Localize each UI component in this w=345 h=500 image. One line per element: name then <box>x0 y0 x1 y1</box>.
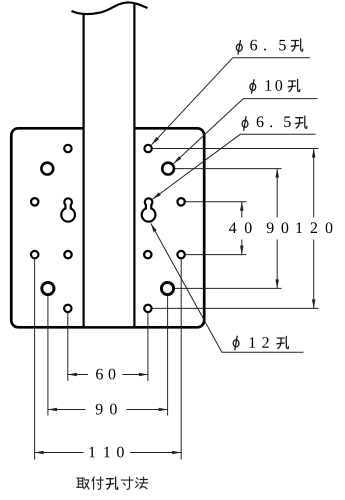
dimension 110 text <box>89 447 123 458</box>
caption kanji 寸 <box>121 477 133 489</box>
extension line x=147.9 (60 dim right) <box>147 313 149 381</box>
pole break wave <box>72 2 148 14</box>
label φ6.5孔 (top) phi symbol <box>236 40 242 55</box>
hole φ6.5 row D far-left <box>31 251 38 258</box>
label φ10孔 phi symbol <box>250 79 256 94</box>
caption kanji 法 <box>136 477 148 489</box>
hole φ6.5 mid-right outer (row C right) <box>177 198 184 205</box>
extension line x=34.6 (110 dim left) <box>34 259 36 459</box>
keyhole slot right (φ6.5 top / φ12 bottom) <box>142 198 156 221</box>
caption kanji 取 <box>77 478 89 489</box>
keyhole slot left (φ6.5 top / φ12 bottom) <box>61 198 75 221</box>
label φ12孔 leader <box>151 223 304 352</box>
extension line x=181.2 (110 dim right) <box>180 259 182 459</box>
label φ6.5孔 (top) digits <box>250 40 285 51</box>
extension line x=167.6 (90 dim right) <box>167 296 169 416</box>
pole body (occludes plate top edge) <box>84 12 135 326</box>
label φ6.5孔 (middle) digits <box>257 116 291 127</box>
label φ6.5孔 (middle) phi symbol <box>242 116 248 131</box>
caption kanji 付 <box>92 477 103 489</box>
hole φ6.5 row D mid-right <box>144 251 151 258</box>
extension line y=201.8 (40 dim top) <box>185 201 247 203</box>
caption kanji 孔 <box>106 477 118 489</box>
hole φ6.5 bottom-left inner (row F left) <box>64 305 71 312</box>
hole φ6.5 mid-left outer (row C left) <box>31 198 38 205</box>
hole φ6.5 top-left inner (row A left) <box>64 145 71 152</box>
extension line y=168.6 (90 dim top) <box>175 168 282 170</box>
hole φ6.5 row D mid-left <box>64 251 71 258</box>
extension line y=308.4 (120 dim bottom) <box>152 307 319 309</box>
extension line y=148.5 (120 dim top) <box>152 148 319 150</box>
hole φ10 upper-left (row B left) <box>41 163 53 175</box>
label φ12孔 digits <box>250 337 269 348</box>
dimension 120 text <box>296 222 332 233</box>
hole φ10 lower-right (row E right) <box>161 282 173 294</box>
hole φ6.5 row D far-right <box>177 251 184 258</box>
dimension 110 line <box>35 452 84 454</box>
label φ12孔 phi symbol <box>233 336 239 351</box>
label φ6.5孔 (middle) kanji 孔 <box>295 116 307 128</box>
label φ10孔 digits <box>266 80 283 91</box>
dimension 60 text <box>96 369 115 380</box>
dimension 120 line <box>313 149 315 218</box>
hole φ6.5 bottom-right inner (row F right) <box>144 305 151 312</box>
hole φ10 lower-left (row E left) <box>42 282 54 294</box>
dimension 90 vertical line <box>276 169 278 218</box>
dimension 60 line <box>68 374 88 376</box>
hole φ10 upper-right (row B right) <box>162 163 174 175</box>
label φ6.5孔 (top) kanji 孔 <box>291 39 303 51</box>
label φ6.5孔 (top) leader <box>152 58 311 145</box>
mounting plate outline <box>11 128 204 327</box>
dimension 40 text <box>229 222 252 233</box>
label φ10孔 kanji 孔 <box>288 79 300 91</box>
label φ12孔 kanji 孔 <box>277 336 289 348</box>
hole φ6.5 top-right inner (row A right) <box>144 145 151 152</box>
dimension 90 text <box>96 404 117 415</box>
extension line x=67.8 (60 dim left) <box>67 313 69 381</box>
extension line y=254.6 (40 dim bottom) <box>186 254 247 256</box>
dimension 40 line <box>241 202 243 218</box>
pole left edge <box>82 13 84 327</box>
dimension 90 vertical text <box>267 222 289 233</box>
extension line y=288.4 (90 dim bottom) <box>175 287 282 289</box>
extension line x=47.9 (90 dim left) <box>47 296 49 416</box>
dimension 90 line <box>48 409 86 411</box>
label φ6.5孔 (middle) leader <box>153 134 316 199</box>
pole right edge <box>133 4 135 328</box>
label φ10孔 leader <box>174 99 318 164</box>
